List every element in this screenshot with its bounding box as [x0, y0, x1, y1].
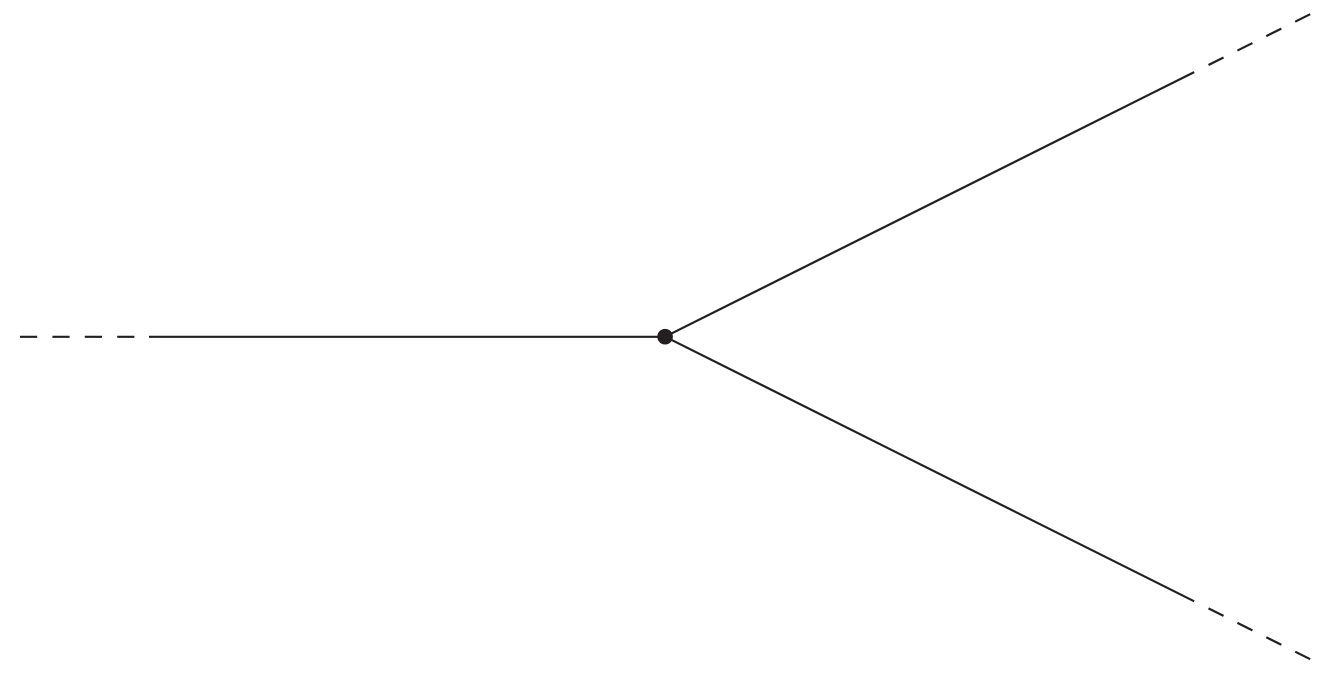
wire: left external dashed segment: [20, 336, 134, 338]
wire: upper outgoing solid propagator: [665, 72, 1194, 337]
wire: lower outgoing solid propagator: [665, 337, 1194, 602]
wire: left solid propagator into vertex: [149, 336, 665, 338]
wire: upper external dashed segment: [1209, 14, 1311, 65]
wire: lower external dashed segment: [1209, 608, 1311, 659]
node: interaction vertex dot: [657, 329, 673, 345]
